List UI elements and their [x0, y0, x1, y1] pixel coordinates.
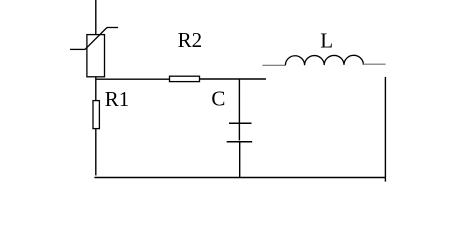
thermistor diagonal upper tick — [107, 27, 118, 29]
svg-text:L: L — [320, 28, 333, 52]
thermistor diagonal stroke — [85, 28, 107, 50]
capacitor C top lead — [238, 79, 240, 140]
inductor L left lead — [262, 64, 285, 66]
capacitor C top plate — [229, 122, 252, 124]
wire R1 bottom to bottom rail — [95, 129, 97, 176]
wire right vertical branch — [384, 77, 386, 182]
wire bottom rail — [94, 177, 386, 179]
wire node to R2 left — [96, 78, 170, 80]
resistor R1 body — [93, 101, 99, 129]
capacitor C bottom lead — [239, 142, 241, 178]
thermistor RT body — [87, 35, 105, 77]
wire from thermistor bottom down to node — [95, 77, 97, 101]
svg-text:C: C — [211, 87, 225, 111]
inductor L coil humps — [285, 55, 363, 65]
wire R2 right to capacitor branch — [200, 78, 267, 80]
inductor L right lead — [363, 63, 386, 65]
svg-text:R2: R2 — [178, 28, 203, 52]
wire top vertical lead into thermistor — [95, 0, 97, 35]
capacitor C bottom plate — [227, 141, 253, 143]
svg-text:R1: R1 — [105, 87, 130, 111]
resistor R2 body — [170, 76, 200, 81]
thermistor diagonal lower tick — [70, 48, 85, 50]
